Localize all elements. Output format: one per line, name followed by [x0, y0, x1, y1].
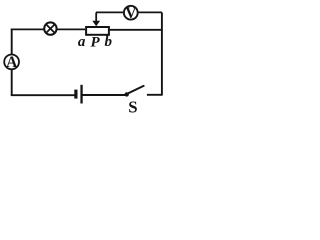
svg-text:S: S [128, 98, 137, 115]
wire: switch to bottom-right corner [147, 94, 163, 96]
wire: voltmeter branch top [96, 11, 162, 13]
wire: rheostat right terminal b to right vertical [110, 29, 163, 31]
wire: bottom left to battery [11, 94, 75, 96]
svg-text:b: b [105, 34, 113, 50]
svg-text:P: P [91, 35, 101, 51]
svg-text:a: a [78, 34, 86, 50]
switch S pivot dot [125, 92, 129, 96]
wiper arrowhead onto rheostat P [92, 21, 100, 27]
wire: right vertical [161, 13, 163, 96]
switch S lever (open) [127, 86, 144, 94]
wire: wiper stem from voltmeter branch [95, 12, 97, 21]
rheostat R (slide resistor box) [86, 27, 109, 35]
lamp L (circle with X) [44, 22, 56, 34]
wire: left vertical through ammeter [11, 29, 13, 96]
svg-text:A: A [6, 54, 18, 71]
wire: battery to switch [83, 94, 126, 96]
svg-text:V: V [125, 5, 137, 22]
battery cell: short thick negative plate [74, 90, 77, 99]
voltmeter U1 [124, 5, 138, 22]
battery cell: long positive plate [80, 85, 82, 104]
wire: top-left horizontal (battery loop top, lamp branch) [11, 28, 85, 30]
ammeter U2 [4, 54, 19, 71]
